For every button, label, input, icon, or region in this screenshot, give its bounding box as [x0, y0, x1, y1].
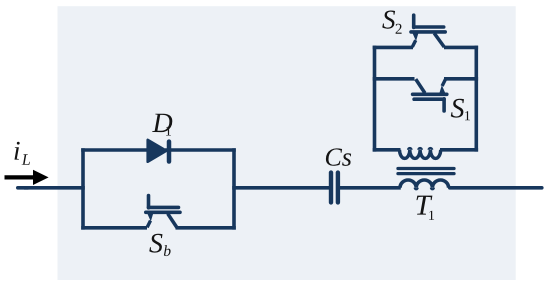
label S2	[382, 11, 401, 34]
label T1	[417, 196, 435, 220]
wire: secondary loop top edge (left of S2)	[373, 46, 413, 50]
label Cs	[326, 148, 351, 166]
wire: secondary loop right vertical	[474, 46, 478, 152]
label D1	[152, 114, 172, 136]
transformer T1 core bars	[398, 169, 454, 174]
current arrow	[5, 170, 49, 185]
wire: secondary loop top edge (right of S2)	[444, 46, 478, 50]
wire: transformer to right edge	[450, 186, 542, 190]
wire: middle rung (right of S1)	[444, 77, 478, 81]
IGBT S2	[411, 15, 445, 47]
label S1	[451, 99, 470, 121]
background panel	[58, 6, 516, 280]
wire: left loop top edge (cathode side)	[165, 148, 236, 152]
label iL (input current)	[15, 142, 30, 165]
wire: left loop bottom edge (left of Sb)	[81, 226, 147, 230]
wire: secondary loop bottom edge (right of winding)	[440, 148, 478, 152]
wire: middle rung (left of S1)	[373, 77, 415, 81]
transformer T1 primary winding	[400, 180, 449, 189]
wire: capacitor to transformer	[340, 186, 401, 190]
wire: left loop top edge (anode side)	[81, 148, 149, 152]
wire: left loop bottom edge (right of Sb)	[176, 226, 236, 230]
wire: left loop right vertical	[232, 148, 236, 229]
wire: secondary loop left vertical	[373, 46, 377, 152]
IGBT S1	[413, 79, 447, 111]
wire: middle link (loop to capacitor)	[232, 186, 329, 190]
wire: left loop left vertical	[81, 148, 85, 229]
transformer T1 secondary winding	[400, 148, 441, 158]
diode D1	[148, 140, 169, 162]
IGBT Sb	[146, 196, 180, 228]
wire: secondary loop bottom edge (left of winding)	[373, 148, 401, 152]
wire: input lead	[18, 186, 85, 190]
capacitor Cs	[331, 173, 338, 203]
label Sb	[149, 234, 170, 256]
